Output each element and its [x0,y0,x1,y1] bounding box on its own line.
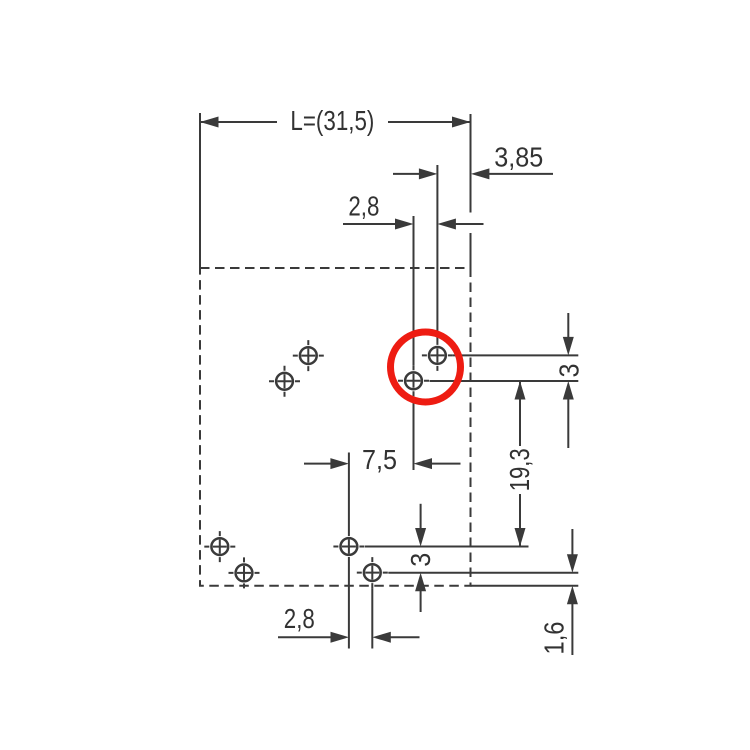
extension line through hole B upper (x=413.5) [413,216,415,365]
arrowhead 7,5 right-pointing [330,458,349,469]
arrowhead 7,5 left-pointing [414,458,433,469]
svg-text:2,8: 2,8 [284,603,315,634]
extension line right of hole B (y=381) [430,380,579,382]
hole G crosshair [293,340,324,371]
dimension L=(31,5) line right segment [388,121,470,123]
dimension 19,3 lower line [519,494,521,547]
arrowhead 3,85 left-pointing [471,168,490,179]
dimension 3,85 line left segment [393,173,420,175]
dimension 7,5 line left segment [304,463,331,465]
extension line right of hole F (y=572.7) [388,572,578,574]
dimension 3 top-right upper line [567,313,569,338]
arrowhead 2,8 bottom left-pointing [372,632,391,643]
arrowhead 19,3 down-pointing [515,528,526,547]
arrowhead 3 top-right up-pointing [563,381,574,400]
hole E ring [341,538,358,555]
extension line through hole B lower (x=413.5) [413,396,415,470]
svg-text:7,5: 7,5 [362,444,397,475]
dashed outline rectangle (PCB edge) [200,268,471,586]
arrowhead 1,6 down-pointing [567,554,578,573]
svg-text:19,3: 19,3 [504,448,535,491]
svg-text:3: 3 [554,364,585,378]
hole A crosshair [422,340,453,371]
extension line right of hole E (y=546.5) [365,546,529,548]
arrowhead 19,3 up-pointing [515,381,526,400]
dimension 1,6 upper line [571,529,573,555]
dimension 3 bottom upper line [420,504,422,529]
svg-text:2,8: 2,8 [348,191,379,222]
hole E crosshair [333,531,364,562]
arrowhead 3 bottom up-pointing [415,573,426,592]
dimension 2,8 bottom line left segment [278,636,331,638]
hole D ring [236,565,253,582]
red highlight circle [391,332,461,402]
dimension 3 bottom lower line [420,590,422,612]
arrowhead 3 bottom down-pointing [415,528,426,547]
arrowhead 2,8 bottom right-pointing [331,632,350,643]
arrowhead 3,85 right-pointing [419,168,438,179]
hole C crosshair [204,531,235,562]
hole F ring [364,564,381,581]
hole H crosshair [269,366,300,397]
dimension 7,5 line right segment [431,463,461,465]
arrowhead L right [452,117,471,128]
arrowhead 2,8 top right-pointing [395,219,414,230]
extension line below hole F (x=372.3) [371,588,373,648]
extension line right (x=470.5) upper segment [470,114,472,213]
dimension L=(31,5) line left segment [201,121,277,123]
dimension 1,6 lower line [571,603,573,655]
arrowhead 3 top-right down-pointing [563,337,574,356]
svg-text:L=(31,5): L=(31,5) [290,105,374,136]
extension line right of hole A (y=355.4) [453,354,578,356]
dimension 2,8 bottom line right segment [390,636,420,638]
hole H ring [276,373,293,390]
hole C ring [211,538,228,555]
svg-text:3,85: 3,85 [494,141,543,172]
svg-text:3: 3 [405,553,436,567]
hole B ring [405,372,422,389]
dimension 19,3 upper line [519,381,521,446]
dimension 3,85 line right segment [489,173,554,175]
hole D crosshair [229,557,260,588]
svg-text:1,6: 1,6 [539,622,570,655]
extension line of bottom edge (y=585.8) [471,585,579,587]
dimension 2,8 top line right segment [455,223,484,225]
dimension 3 top-right lower line [567,399,569,449]
hole B crosshair [398,365,429,396]
hole G ring [300,347,317,364]
arrowhead 2,8 top left-pointing [437,219,456,230]
extension line through hole A (x=437.4) [436,165,438,340]
dimension 2,8 top line left segment [343,223,396,225]
extension line through hole E lower (x=348.9) [348,562,350,649]
extension line through hole E upper (x=348.9) [348,453,350,532]
extension line right (x=470.5) lower segment [470,233,472,268]
arrowhead L left [200,117,219,128]
hole F crosshair [357,557,388,588]
arrowhead 1,6 up-pointing [567,586,578,605]
hole A ring [429,347,446,364]
extension line left (x=200) [199,113,201,268]
